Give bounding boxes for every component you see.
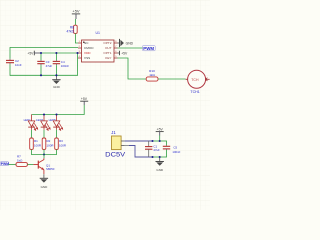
LED LED5 — [49, 115, 63, 131]
junction dots input filter — [151, 140, 153, 142]
svg-text:KEY: KEY — [105, 56, 111, 60]
ground (input filter) — [156, 157, 164, 172]
svg-text:+5V: +5V — [81, 97, 88, 101]
capacitor C2 10nF — [6, 59, 22, 67]
resistor R2 100R — [42, 138, 53, 149]
pin 4 VSS — [78, 57, 82, 59]
wire VSS down to ground rail — [77, 53, 79, 76]
svg-text:100R: 100R — [59, 144, 66, 148]
resistor R10 1k — [146, 69, 158, 81]
op-amp / touch IC U1 — [78, 31, 118, 62]
wire +5V down and LED top rail — [32, 105, 85, 115]
wire top rail to CMOD — [10, 47, 78, 49]
svg-text:NC: NC — [84, 41, 89, 45]
wire J1 pin2 to ground node — [125, 146, 153, 158]
pin 6 OPT1 — [114, 52, 118, 54]
capacitor C4 100nF — [53, 53, 70, 75]
junction dots on LED rail — [43, 113, 45, 115]
svg-text:TCH1: TCH1 — [190, 90, 199, 94]
wire collector drop — [43, 155, 45, 159]
LED LED1 — [24, 115, 38, 131]
svg-text:10nF: 10nF — [15, 63, 22, 67]
wire +5V link rail — [153, 140, 167, 142]
wire R10 to TCH1 — [158, 78, 186, 80]
junction dots on +5V rail — [40, 52, 42, 54]
svg-text:+5V: +5V — [121, 51, 128, 55]
wire R7 to base — [27, 164, 33, 166]
svg-text:PWM: PWM — [1, 162, 9, 166]
svg-text:+5V: +5V — [27, 51, 34, 55]
svg-text:J1: J1 — [111, 130, 116, 135]
svg-text:GND: GND — [41, 185, 49, 189]
capacitor C3 47uF — [37, 53, 52, 75]
svg-text:100R: 100R — [34, 144, 41, 148]
wire ground link rail — [153, 156, 167, 158]
transistor Q1 S8050 — [33, 158, 54, 174]
connector J1 DC5V — [105, 130, 126, 159]
svg-text:100nF: 100nF — [172, 150, 180, 154]
resistor R1 100R — [30, 138, 41, 149]
svg-text:R2: R2 — [47, 139, 51, 143]
LED LED2 — [36, 115, 50, 131]
capacitor C5 100nF — [163, 141, 181, 158]
resistor R8 47k — [66, 25, 77, 33]
wire +5V to R8 — [74, 19, 76, 25]
pin 2 CMOD — [78, 47, 82, 49]
wire LED1 to R1 — [31, 130, 33, 138]
junction dot collector — [43, 153, 45, 155]
svg-text:R3: R3 — [59, 139, 63, 143]
svg-text:CMOD: CMOD — [84, 46, 94, 50]
touch sensor TCH1 — [186, 70, 210, 94]
wire OUT to PWM — [118, 47, 143, 49]
wire R8 to pin NC — [75, 33, 78, 43]
svg-text:+5V: +5V — [72, 9, 80, 14]
svg-text:U1: U1 — [96, 31, 101, 35]
svg-text:GND: GND — [126, 42, 134, 46]
svg-text:GND: GND — [156, 168, 164, 172]
svg-text:+5V: +5V — [157, 127, 164, 131]
svg-text:OPT1: OPT1 — [103, 51, 111, 55]
wire left edge upper — [9, 47, 11, 59]
svg-text:VSS: VSS — [84, 56, 90, 60]
wire LED5 to R3 — [56, 130, 58, 138]
wires resistors to collector rail — [31, 149, 33, 155]
wire bottom ground rail — [10, 74, 78, 76]
wire PWM to R7 — [8, 164, 16, 166]
pin 5 KEY — [114, 57, 118, 59]
svg-text:OPT2: OPT2 — [103, 41, 111, 45]
power +5V (input filter) — [156, 127, 164, 141]
ground (decoupling rail) — [52, 75, 60, 89]
net label PWM (base drive) — [0, 162, 9, 166]
svg-text:1kΩ: 1kΩ — [17, 158, 23, 162]
wire +5V rail to VDD — [41, 52, 78, 54]
resistor R3 100R — [55, 138, 66, 149]
svg-text:PWM: PWM — [143, 46, 154, 51]
svg-text:100R: 100R — [47, 144, 54, 148]
power +5V (LED rail feed) — [80, 97, 88, 105]
net label PWM (OUT) — [142, 46, 155, 52]
svg-text:DC5V: DC5V — [105, 151, 126, 158]
svg-text:47kΩ: 47kΩ — [66, 30, 74, 34]
wire LED2 to R2 — [43, 130, 45, 138]
svg-text:100nF: 100nF — [61, 64, 69, 68]
svg-text:1kΩ: 1kΩ — [149, 73, 155, 77]
svg-text:R1: R1 — [34, 139, 38, 143]
wire collector rail — [32, 154, 57, 156]
pin 1 NC — [78, 42, 82, 44]
pin 7 OUT — [114, 47, 118, 49]
svg-text:47uF: 47uF — [46, 64, 53, 68]
svg-text:OUT: OUT — [105, 46, 112, 50]
resistor R7 1k — [16, 154, 27, 166]
power +5V (top feed to R8) — [72, 9, 80, 19]
power +5V at OPT1 — [118, 51, 129, 56]
svg-text:VDD: VDD — [84, 51, 91, 55]
pin 8 OPT2 — [114, 42, 118, 44]
wire KEY to R10 — [118, 58, 147, 79]
wire left edge lower — [9, 64, 11, 75]
svg-text:S8050: S8050 — [46, 167, 55, 171]
ground at OPT2 — [118, 39, 134, 47]
svg-text:GND: GND — [53, 85, 61, 89]
power +5V (decoupling rail) — [27, 51, 40, 56]
junction dots on ground rail — [40, 74, 42, 76]
pin 3 VDD — [78, 52, 82, 54]
capacitor C1 47uF — [145, 141, 160, 157]
svg-text:TCH: TCH — [191, 78, 199, 82]
wire J1 pin1 to +5V node — [125, 140, 153, 142]
svg-text:47uF: 47uF — [153, 148, 160, 152]
ground at Q1 emitter — [40, 174, 48, 189]
